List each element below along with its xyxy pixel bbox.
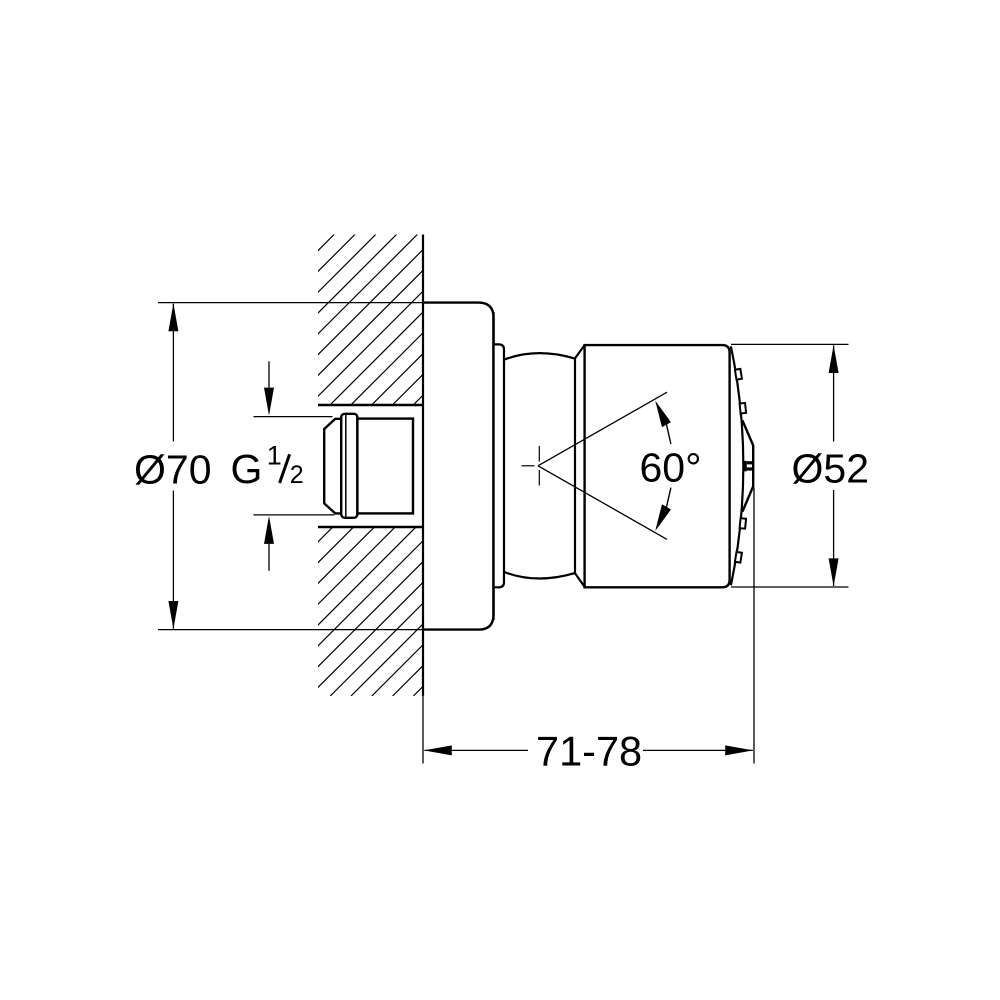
nozzle 4 [735, 552, 742, 563]
dim O52 top extension line [731, 343, 849, 345]
svg-text:2: 2 [290, 461, 304, 489]
dim 71-78 line right segment [643, 749, 753, 751]
mounting shank [494, 344, 505, 587]
head body [585, 345, 730, 587]
nozzle 3 [740, 518, 746, 528]
svg-text:Ø52: Ø52 [792, 445, 870, 491]
dim O70 line lower segment [172, 491, 174, 629]
dim O70 top extension line [158, 302, 425, 304]
angle lower arrow [655, 504, 671, 531]
dim O70 line upper segment [172, 304, 174, 442]
escutcheon right edge restroke [492, 312, 494, 620]
wall hole bottom edge [318, 526, 423, 528]
center dome [742, 420, 753, 511]
center nozzle [744, 461, 747, 471]
svg-text:G: G [231, 446, 263, 492]
angle upper arrow [655, 401, 671, 428]
angle lower ray [538, 466, 667, 540]
dim G1/2 bottom arrow stem [268, 542, 270, 571]
angle upper ray [538, 392, 667, 466]
svg-text:60°: 60° [640, 444, 702, 490]
dim G1/2 top arrow stem [268, 361, 270, 390]
dim G1/2 top arrow [264, 388, 274, 416]
dim G1/2 bottom extension line [254, 514, 335, 516]
dim O52 top arrow [829, 345, 839, 373]
dim 71-78 right arrow [725, 745, 753, 755]
svg-text:1: 1 [267, 440, 282, 470]
dim O70 top arrow [168, 303, 178, 331]
wall hatching [0, 235, 875, 697]
ball joint top arc [504, 353, 575, 360]
dim O52 bottom extension line [731, 586, 849, 588]
collar inner line [345, 414, 347, 517]
dim 71-78 line left segment [425, 749, 529, 751]
dim O52 bottom arrow [829, 558, 839, 586]
dim 71-78 right extension line [753, 488, 755, 764]
dim O52 line upper segment [833, 345, 835, 441]
angle vertex horizontal dash [522, 465, 535, 467]
label fraction slash [280, 454, 290, 483]
wall hole top edge [318, 404, 423, 406]
dim G1/2 bottom arrow [264, 516, 274, 544]
threaded body G1/2 [357, 419, 413, 514]
spray face arc [731, 346, 743, 585]
angle vertex vertical dash upper [538, 446, 540, 462]
wall edge extension line [422, 696, 424, 764]
dim 71-78 left arrow [424, 745, 452, 755]
dim O70 bottom extension line [158, 629, 425, 631]
head chamfer profile [575, 345, 585, 587]
wall surface edge [422, 235, 424, 697]
dim O70 bottom arrow [168, 601, 178, 629]
nozzle 2 [740, 403, 746, 413]
ball joint bottom arc [504, 572, 575, 579]
nozzle 1 [735, 369, 742, 380]
dim O52 line lower segment [833, 490, 835, 586]
escutcheon flange [423, 303, 494, 630]
fitting hex nut [324, 419, 340, 514]
fitting collar ring [341, 414, 357, 518]
angle vertex vertical dash lower [538, 470, 540, 486]
svg-text:Ø70: Ø70 [134, 446, 212, 492]
dim G1/2 top extension line [254, 416, 333, 418]
svg-text:71-78: 71-78 [536, 728, 642, 775]
